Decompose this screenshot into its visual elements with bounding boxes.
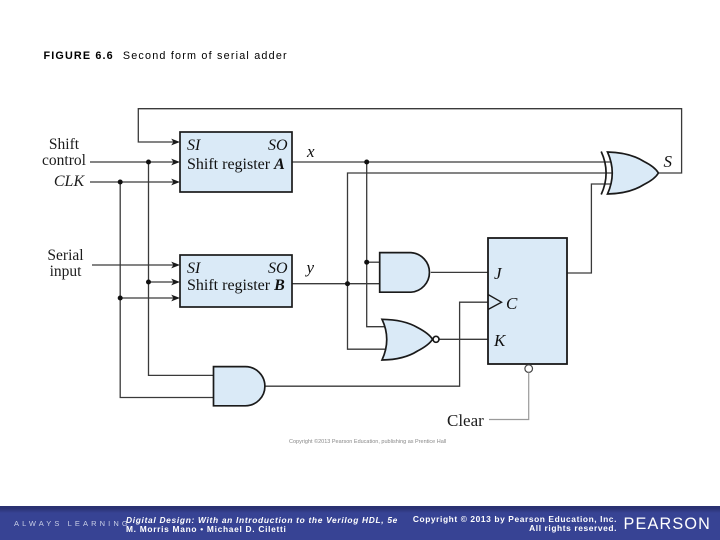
svg-text:S: S	[664, 152, 673, 171]
svg-text:input: input	[50, 263, 83, 280]
wire: Q output to XOR input	[567, 184, 615, 273]
wire: clock AND output to C input	[265, 302, 488, 386]
wire: CLK vertical bus	[120, 182, 213, 398]
AND gate for gated clock	[214, 367, 265, 406]
wire: shift control input	[90, 161, 174, 163]
wire: x vertical branch	[367, 162, 390, 327]
junction dots	[118, 160, 370, 301]
svg-text:control: control	[42, 152, 86, 169]
label: Shift control	[42, 136, 86, 169]
svg-text:CLK: CLK	[54, 173, 86, 190]
svg-text:K: K	[493, 331, 507, 350]
arrowheads into register B	[171, 262, 180, 269]
wire: Clear to bubble	[489, 372, 529, 419]
svg-text:SO: SO	[268, 137, 288, 154]
clear bubble	[525, 365, 533, 373]
JK flip-flop	[488, 238, 567, 372]
wire: shift control vertical bus	[149, 162, 214, 375]
wire: CLK input	[90, 181, 174, 183]
svg-text:SI: SI	[187, 260, 201, 277]
wire: shift control branch to B	[149, 281, 174, 283]
label: Serial input	[47, 247, 83, 280]
wire: serial input	[92, 264, 174, 266]
clock triangle	[488, 295, 502, 310]
wire: S feedback to SI of A	[138, 109, 681, 173]
shift register B	[180, 255, 292, 307]
svg-text:Shift register B: Shift register B	[187, 277, 285, 294]
wire: NOR output to K input	[439, 338, 488, 340]
svg-text:C: C	[506, 294, 518, 313]
svg-text:Serial: Serial	[47, 247, 83, 264]
svg-text:Clear: Clear	[447, 411, 484, 430]
XOR gate	[601, 152, 658, 195]
wire: y vertical branch to XOR	[348, 173, 616, 349]
wire: y from SO of B to AND J gate	[292, 283, 380, 285]
wire: AND J output to J input	[431, 271, 488, 273]
wire: CLK branch to B	[120, 297, 173, 299]
svg-text:SO: SO	[268, 260, 288, 277]
svg-text:y: y	[305, 258, 315, 277]
arrowheads into register A	[171, 139, 180, 302]
svg-text:Copyright ©2013 Pearson Educat: Copyright ©2013 Pearson Education, publi…	[289, 438, 446, 445]
svg-text:SI: SI	[187, 137, 201, 154]
svg-text:Shift register A: Shift register A	[187, 156, 285, 173]
shift register A	[180, 132, 292, 192]
wire: x branch to AND J gate	[367, 261, 380, 263]
svg-text:x: x	[306, 142, 315, 161]
wire: x from SO of A to XOR	[292, 161, 615, 163]
svg-text:Shift: Shift	[49, 136, 80, 153]
AND gate for J	[380, 253, 430, 293]
NOR gate for K	[382, 319, 439, 360]
